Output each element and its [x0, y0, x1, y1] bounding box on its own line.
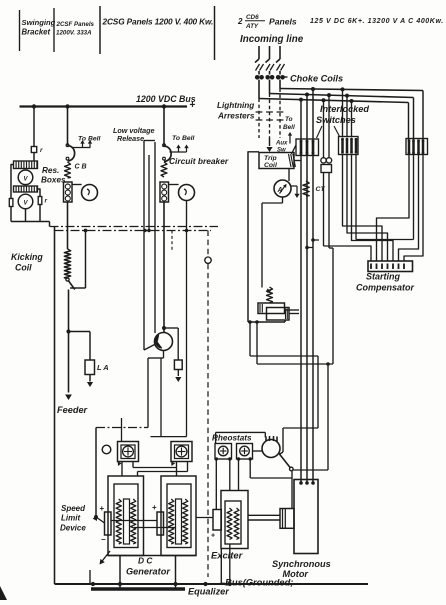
- svg-text:Kicking: Kicking: [11, 252, 43, 262]
- svg-text:Starting: Starting: [366, 272, 401, 282]
- svg-text:Release: Release: [117, 134, 144, 143]
- svg-text:Compensator: Compensator: [356, 283, 415, 293]
- svg-text:Coil: Coil: [264, 162, 277, 169]
- svg-text:To: To: [285, 116, 293, 123]
- svg-text:C B: C B: [75, 164, 87, 171]
- svg-text:Panels: Panels: [269, 17, 297, 27]
- svg-text:Synchronous: Synchronous: [272, 559, 331, 569]
- svg-text:2: 2: [237, 17, 243, 26]
- svg-text:Res.: Res.: [42, 166, 59, 175]
- svg-text:Speed: Speed: [61, 504, 86, 513]
- svg-text:r: r: [40, 147, 43, 154]
- svg-text:Coil: Coil: [15, 263, 32, 273]
- svg-text:Exciter: Exciter: [211, 550, 244, 561]
- svg-text:+: +: [152, 503, 157, 512]
- svg-text:–Bus(Grounded;: –Bus(Grounded;: [220, 578, 293, 588]
- svg-text:Bracket: Bracket: [22, 28, 51, 37]
- svg-text:1200 VDC Bus: 1200 VDC Bus: [136, 94, 196, 104]
- svg-text:Rheostats: Rheostats: [212, 434, 252, 443]
- svg-text:V: V: [23, 176, 28, 182]
- svg-text:Equalizer: Equalizer: [188, 587, 229, 597]
- svg-text:Switches: Switches: [316, 115, 356, 125]
- svg-text:−: −: [101, 535, 106, 544]
- svg-text:Feeder: Feeder: [57, 405, 88, 415]
- svg-text:Bell: Bell: [283, 124, 295, 131]
- svg-text:Generator: Generator: [126, 567, 170, 577]
- svg-text:r: r: [45, 198, 48, 205]
- svg-text:Limit: Limit: [61, 514, 80, 523]
- svg-text:D C: D C: [138, 556, 153, 566]
- svg-text:Circuit breaker: Circuit breaker: [169, 156, 229, 166]
- svg-text:+: +: [211, 533, 215, 540]
- svg-text:Lightning: Lightning: [217, 101, 254, 110]
- svg-text:Device: Device: [60, 524, 86, 533]
- svg-text:1200V. 333A: 1200V. 333A: [56, 30, 92, 37]
- svg-text:+: +: [100, 504, 105, 513]
- svg-text:2CSG Panels 1200 V. 400 Kw.: 2CSG Panels 1200 V. 400 Kw.: [102, 17, 214, 27]
- svg-text:To Bell: To Bell: [172, 135, 195, 142]
- svg-text:Aux: Aux: [275, 141, 288, 147]
- svg-text:ATY: ATY: [245, 23, 259, 30]
- svg-text:Choke Coils: Choke Coils: [290, 74, 343, 84]
- svg-text:V: V: [23, 201, 28, 207]
- svg-text:125 V DC 6K+. 13200 V A C 400: 125 V DC 6K+. 13200 V A C 400Kw.: [310, 18, 444, 25]
- svg-text:Swinging: Swinging: [22, 18, 56, 27]
- svg-text:CD6: CD6: [246, 14, 259, 21]
- svg-text:Trip: Trip: [264, 155, 277, 162]
- svg-text:Arresters: Arresters: [217, 112, 255, 121]
- svg-text:L A: L A: [97, 363, 109, 372]
- svg-text:Interlocked: Interlocked: [320, 104, 369, 114]
- svg-text:+: +: [190, 100, 196, 111]
- svg-text:Incoming line: Incoming line: [240, 34, 304, 45]
- svg-text:Boxes: Boxes: [41, 176, 66, 185]
- svg-text:2CSF Panels: 2CSF Panels: [56, 21, 95, 28]
